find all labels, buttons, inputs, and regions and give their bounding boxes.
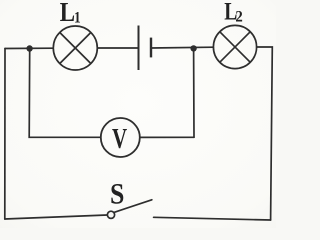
svg-text:2: 2 (235, 9, 242, 26)
svg-text:1: 1 (74, 9, 81, 26)
svg-text:S: S (110, 178, 124, 210)
svg-text:L: L (60, 0, 75, 27)
svg-text:V: V (112, 124, 127, 155)
